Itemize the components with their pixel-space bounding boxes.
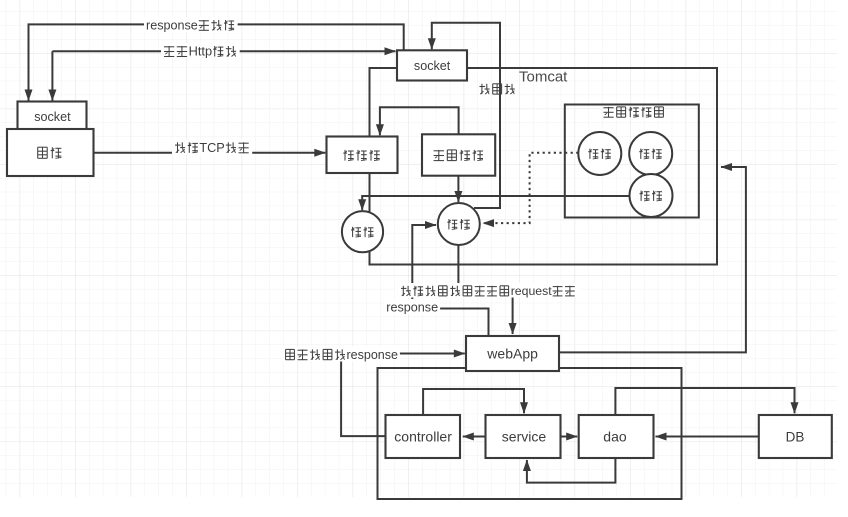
box controller (386, 415, 461, 458)
svg-text:DB: DB (786, 430, 805, 445)
label response写回去 (144, 17, 238, 32)
label 找到他 (480, 84, 515, 94)
svg-text:response: response (347, 348, 398, 362)
svg-text:response: response (146, 18, 198, 32)
circle pool 线程 B (629, 132, 672, 175)
svg-text:dao: dao (603, 429, 627, 445)
box 用户 (user) (7, 129, 94, 176)
box service (486, 415, 561, 458)
label pool 线程 B (639, 149, 662, 159)
svg-text:Tomcat: Tomcat (519, 68, 568, 85)
svg-text:webApp: webApp (486, 346, 538, 362)
label 建立TCP连接 (172, 139, 252, 155)
wire 交给他 label to webApp (399, 353, 465, 355)
box 端口号 (port) (327, 137, 398, 174)
label 用户 (38, 147, 62, 158)
circle pool 线程 C (630, 174, 673, 217)
label 线程 1 (351, 227, 374, 237)
circle 线程 1 (thread) (342, 211, 383, 252)
wire response写回去 (top socket to user socket) (29, 24, 404, 100)
container box webApp outer (MVC container) (378, 368, 682, 499)
box socket (user side) (18, 102, 87, 133)
dotted wire pool thread 1 to 线程 circle 2 (483, 153, 578, 223)
wire pool thread to 线程 circle 1 (362, 196, 629, 210)
box DB (759, 415, 832, 458)
label 把请求的参数封装到request对象 (398, 283, 578, 298)
wire dao to DB (top loop) (615, 388, 794, 415)
wire 找到他 (thread circle to top socket) (432, 23, 500, 208)
box dao (579, 415, 654, 458)
wire 监听线程 to 端口号 (top loop) (380, 107, 459, 135)
circle 线程 2 (thread) (438, 203, 480, 245)
label 发送Http请求 (161, 43, 240, 59)
svg-text:Http: Http (189, 44, 212, 59)
svg-text:response: response (386, 300, 438, 314)
box 监听线程 (listener thread) (422, 134, 495, 175)
label 交给他一个response (282, 347, 400, 362)
wire controller to 交给他 label (341, 362, 386, 437)
wire DB to dao (656, 436, 759, 438)
wire service to dao (560, 436, 577, 438)
label 监听线程 (434, 150, 483, 161)
svg-text:socket: socket (414, 59, 451, 73)
wire 监听线程 to 线程 circle (457, 176, 459, 202)
svg-text:TCP: TCP (199, 141, 224, 155)
box webApp (466, 336, 559, 371)
wire webApp to Tomcat (response return) (559, 167, 746, 352)
box socket (tomcat side) (397, 50, 467, 80)
svg-text:controller: controller (394, 429, 452, 445)
svg-text:request: request (511, 284, 553, 298)
container box 工作线程池 (worker thread pool) (565, 105, 699, 218)
circle pool 线程 A (578, 132, 621, 175)
label 线程 2 (447, 219, 470, 229)
wire 线程 circle 2 to webApp (request object) (458, 245, 512, 334)
svg-text:service: service (502, 429, 547, 445)
wire 建立TCP连接 (用户 to 端口号) (94, 152, 326, 154)
label 工作线程池 (604, 107, 664, 117)
svg-text:socket: socket (34, 110, 71, 124)
wire 发送Http请求 (user socket to top socket, arrows both ends) (52, 50, 395, 52)
wire dao to service (bottom loop) (527, 458, 616, 483)
label 端口号 (343, 150, 379, 161)
label pool 线程 A (588, 149, 611, 159)
label response (384, 299, 440, 314)
container box Tomcat (370, 68, 718, 265)
wire response up (webApp to 线程 circle 2) (412, 225, 488, 336)
wire controller to service (top loop) (423, 389, 524, 415)
label pool 线程 C (640, 191, 663, 201)
wire service to controller (463, 436, 486, 438)
